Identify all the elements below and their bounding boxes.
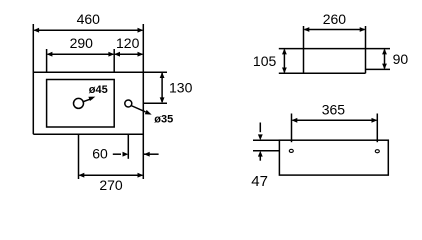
svg-text:105: 105 — [253, 53, 277, 69]
svg-text:47: 47 — [251, 173, 268, 190]
svg-text:260: 260 — [323, 11, 347, 27]
svg-text:ø35: ø35 — [154, 114, 173, 126]
svg-text:290: 290 — [70, 35, 94, 51]
svg-text:365: 365 — [322, 102, 346, 118]
svg-text:120: 120 — [116, 35, 140, 51]
svg-text:270: 270 — [99, 177, 123, 193]
svg-text:130: 130 — [169, 79, 193, 95]
svg-text:ø45: ø45 — [89, 84, 108, 96]
svg-text:60: 60 — [92, 145, 108, 161]
svg-text:90: 90 — [393, 51, 409, 67]
svg-text:460: 460 — [77, 11, 101, 27]
